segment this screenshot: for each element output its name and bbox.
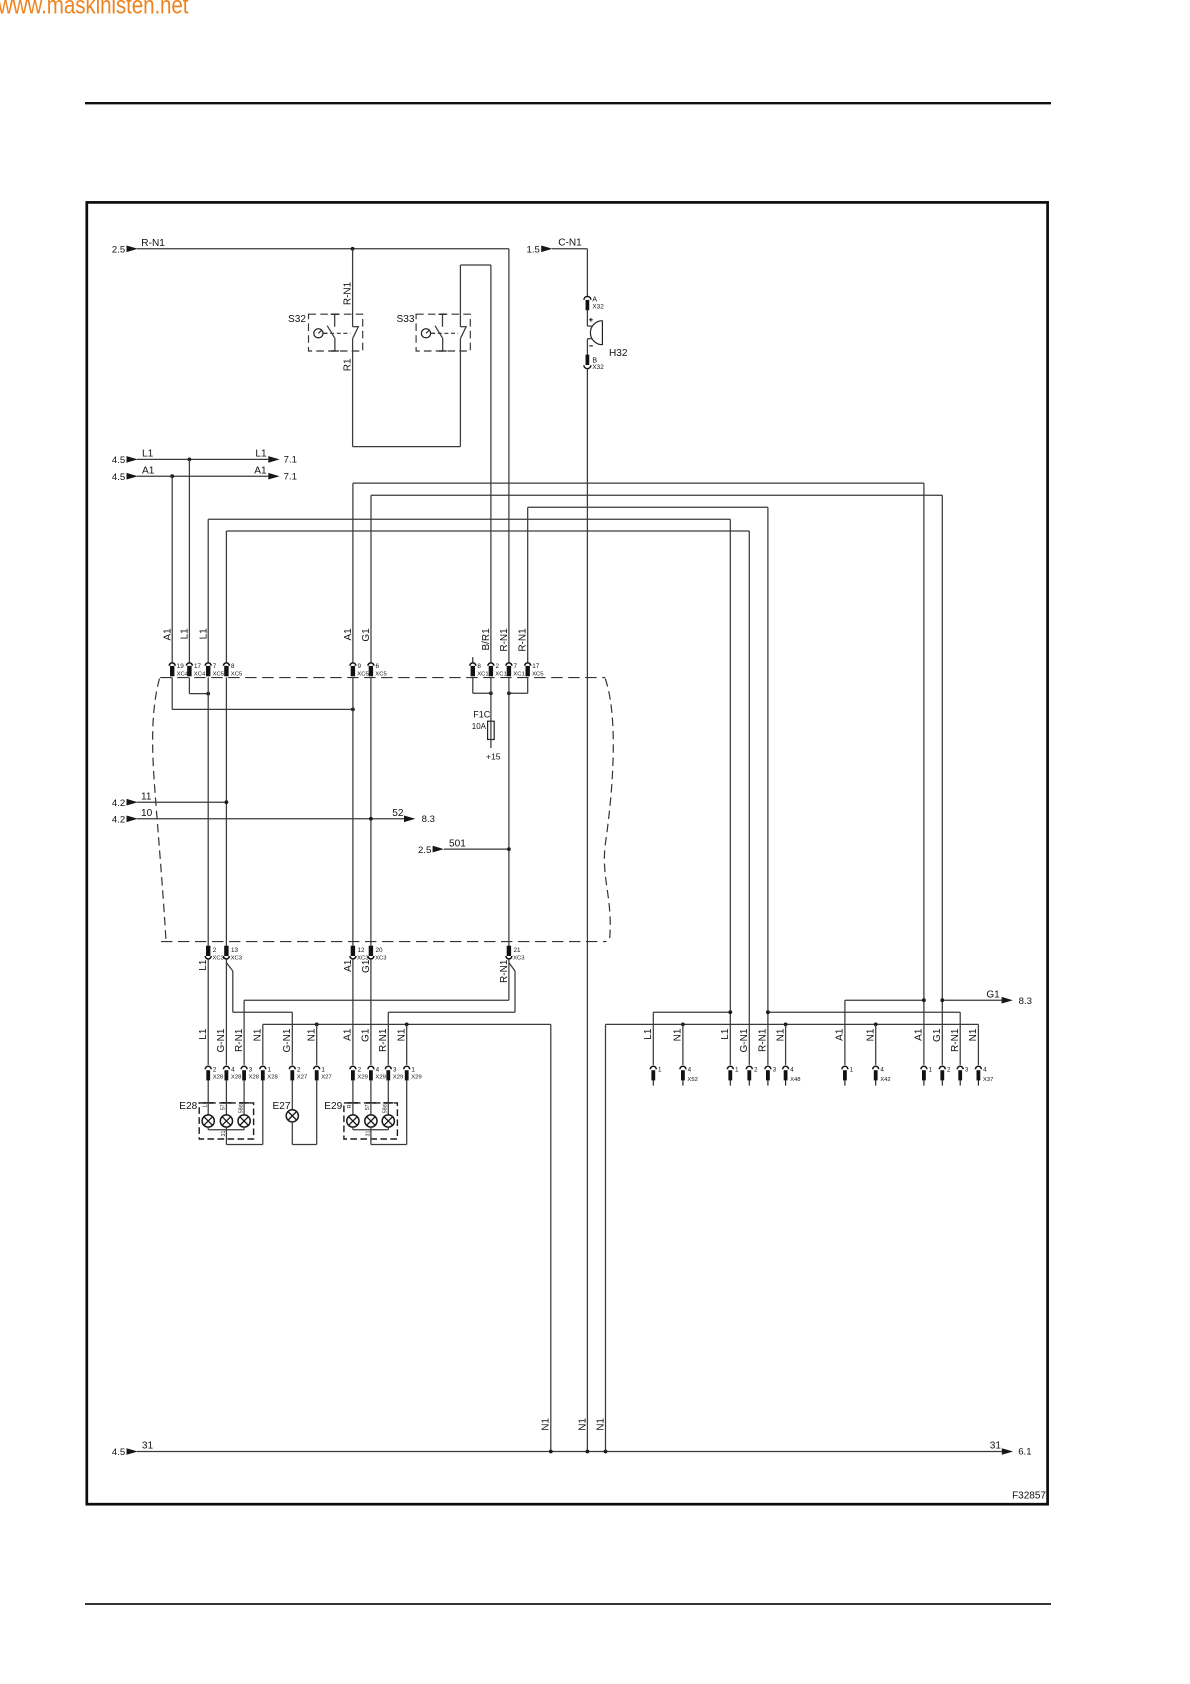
E29 lamp commons — [353, 1127, 388, 1130]
svg-text:N1: N1 — [968, 1028, 979, 1041]
central unit dashed top edge — [160, 677, 605, 679]
svg-text:XC5: XC5 — [357, 672, 369, 678]
connector pin A X32 — [584, 296, 604, 310]
svg-text:XC5: XC5 — [213, 672, 225, 678]
wire G-N1 bus horizontal — [226, 530, 749, 532]
svg-text:2: 2 — [358, 1066, 362, 1073]
svg-text:2.5: 2.5 — [418, 845, 431, 856]
svg-text:1: 1 — [321, 1066, 325, 1073]
wire wire 11 horizontal — [137, 801, 226, 803]
wire E29 return loop — [371, 1144, 407, 1146]
wire G1 through wire — [370, 677, 372, 945]
lamp E28 middle — [220, 1115, 232, 1127]
svg-text:4.5: 4.5 — [112, 472, 125, 483]
svg-text:X29: X29 — [375, 1075, 385, 1081]
feed 2.5 R-N1 labels and arrow — [112, 238, 165, 255]
header rule — [85, 102, 1051, 104]
XC3-21 jog diagonal — [509, 963, 515, 971]
svg-text:A1: A1 — [914, 1028, 925, 1041]
wire E29 N1 riser — [406, 1080, 408, 1144]
svg-text:G1: G1 — [986, 989, 1000, 1000]
E28 terminal labels — [202, 1104, 244, 1113]
svg-text:1: 1 — [929, 1066, 933, 1073]
wire A1 bus right drop to X37-1 — [923, 483, 925, 1065]
svg-text:X28: X28 — [267, 1075, 278, 1081]
svg-text:58d: 58d — [383, 1104, 389, 1113]
connector pin XC4 pin 19 — [169, 663, 189, 678]
svg-text:www.maskinisten.net: www.maskinisten.net — [0, 0, 189, 19]
connector pin XC4 pin 17 — [186, 663, 206, 678]
feed 2.5 wire 501 — [418, 838, 466, 856]
connector pin XC1 pin 2 — [488, 663, 507, 678]
horn H32 body — [587, 318, 628, 359]
wire XC1-8 to B/R1 link — [473, 692, 491, 694]
svg-text:X29: X29 — [411, 1075, 421, 1081]
connector pin XC5 pin 7 — [205, 663, 225, 678]
svg-text:31: 31 — [990, 1441, 1002, 1452]
connector pin X48 pin 4 — [783, 1066, 802, 1085]
svg-text:21: 21 — [514, 947, 522, 954]
svg-text:3: 3 — [249, 1066, 253, 1073]
wire L1 feed horizontal — [137, 458, 268, 460]
wire G-N1 bus right drop to X48-2 — [748, 531, 750, 1065]
connector pin X27 pin 1 — [314, 1066, 332, 1080]
wire E29 common drop — [370, 1130, 372, 1145]
junction N1 tee X48-4 — [784, 1023, 788, 1027]
svg-text:S33: S33 — [397, 314, 415, 325]
svg-text:3: 3 — [393, 1066, 397, 1073]
switch S33 — [397, 314, 471, 351]
svg-text:10A: 10A — [472, 722, 487, 731]
svg-text:7.1: 7.1 — [284, 455, 297, 466]
wire E29 wire 57 — [370, 1080, 372, 1115]
junction wire 501 junction — [507, 847, 511, 851]
S33 right pole contact — [460, 326, 466, 338]
svg-text:501: 501 — [449, 838, 466, 849]
junction L1 branch tee — [728, 1010, 732, 1014]
wire R-N1 feed horizontal — [137, 248, 509, 250]
connector pin X37 pin 2 — [939, 1066, 951, 1085]
svg-text:19: 19 — [177, 663, 185, 670]
svg-text:2.5: 2.5 — [112, 244, 125, 255]
wire E28 return loop — [226, 1144, 262, 1146]
connector pin X48 pin 2 — [746, 1066, 758, 1085]
wire N1 bus left — [263, 1023, 551, 1025]
footer rule — [85, 1603, 1051, 1605]
wire R-N1 branch horizontal right — [768, 1011, 960, 1013]
junction link on B/R1 wire — [489, 691, 493, 695]
svg-text:4: 4 — [688, 1066, 692, 1073]
svg-text:+15: +15 — [486, 752, 501, 762]
junction A1 branch tee — [922, 998, 926, 1002]
wire N1 drop to X28-1 — [262, 1024, 264, 1065]
svg-text:XC1: XC1 — [495, 672, 506, 678]
wire XC4-19 to A1 link — [172, 708, 353, 710]
svg-text:1: 1 — [268, 1066, 272, 1073]
connector pin XC3 pin 13 — [223, 946, 242, 962]
svg-text:X28: X28 — [249, 1075, 260, 1081]
wire R-N1 bus right drop to X48-3 — [767, 507, 769, 1065]
wire R-N1 drop to X29-3 — [387, 1012, 389, 1065]
connector pin XC1 pin 7 — [506, 663, 525, 678]
wire L1 branch horizontal — [653, 1011, 730, 1013]
wire E27 feed wire — [291, 1080, 293, 1109]
svg-text:XC1: XC1 — [477, 672, 488, 678]
wire N1 drop to X27-1 — [316, 1024, 318, 1065]
junction N1 tee X27-1 — [315, 1023, 319, 1027]
central unit dashed bottom edge — [161, 941, 607, 943]
wire G1 bus left drop to XC5-6 — [370, 495, 372, 662]
svg-text:31: 31 — [142, 1441, 154, 1452]
svg-text:G1: G1 — [361, 628, 372, 642]
svg-text:A1: A1 — [254, 465, 267, 476]
svg-text:7.1: 7.1 — [284, 471, 297, 482]
svg-text:7: 7 — [514, 663, 518, 670]
wire C-N1 feed horizontal — [552, 248, 587, 250]
wire A1 vertical to XC4-19 — [171, 476, 173, 662]
feed 4.5 L1 row — [112, 449, 297, 466]
wire ground bus 31 — [137, 1451, 1002, 1453]
svg-text:X28: X28 — [231, 1075, 242, 1081]
svg-text:G1: G1 — [361, 959, 372, 973]
svg-text:L1: L1 — [255, 449, 267, 460]
feed 4.2 wire 11 — [112, 791, 152, 808]
connector pin XC1 pin 8 — [470, 663, 489, 678]
wire B/R1 vertical to XC1-2 — [490, 265, 492, 662]
wire B/R1 to fuse — [490, 677, 492, 721]
lamp unit E29 box — [324, 1101, 397, 1139]
svg-text:G-N1: G-N1 — [216, 1028, 227, 1052]
svg-text:R-N1: R-N1 — [499, 959, 510, 983]
svg-text:L1: L1 — [180, 628, 191, 640]
svg-text:R-N1: R-N1 — [342, 281, 353, 305]
svg-text:L1: L1 — [198, 959, 209, 971]
wire H32 ground wire long — [586, 369, 588, 1452]
svg-text:A1: A1 — [343, 1028, 354, 1041]
svg-text:6.1: 6.1 — [1018, 1447, 1031, 1458]
svg-text:E28: E28 — [179, 1101, 197, 1112]
wire E28 common drop — [225, 1130, 227, 1145]
connector pin X52 pin 4 — [680, 1066, 698, 1085]
svg-text:N1: N1 — [253, 1028, 264, 1041]
svg-text:X28: X28 — [213, 1075, 224, 1081]
junction 31 junction left N1 — [549, 1450, 553, 1454]
svg-text:R-N1: R-N1 — [758, 1028, 769, 1052]
svg-text:E27: E27 — [273, 1101, 291, 1112]
connector pin X29 pin 1 — [404, 1066, 422, 1080]
svg-text:A1: A1 — [343, 628, 354, 641]
svg-text:8.3: 8.3 — [1019, 996, 1032, 1007]
connector pin XC3 pin 21 — [506, 946, 525, 962]
wire G-N1 drop to X28-4 — [225, 959, 227, 1065]
switch S32 — [288, 314, 363, 351]
wire N1 drop to X37-4 — [977, 1024, 979, 1065]
connector pin XC5 pin 17 — [525, 663, 545, 678]
svg-text:N1: N1 — [306, 1028, 317, 1041]
junction link on L1 wire — [206, 692, 210, 696]
wire N1 bus right — [606, 1023, 979, 1025]
feed 4.5 ground bus 31 — [112, 1441, 154, 1459]
connector pin XC5 pin 8 — [223, 663, 243, 678]
wire XC4-17 to L1 link — [189, 693, 208, 695]
svg-text:G-N1: G-N1 — [282, 1028, 293, 1052]
wire R-N1 bus horizontal — [528, 506, 768, 508]
svg-text:E29: E29 — [324, 1101, 342, 1112]
lamp unit E28 box — [179, 1101, 253, 1139]
wire A1 through wire — [352, 677, 354, 945]
connector pin X28 pin 3 — [241, 1066, 260, 1080]
connector pin X29 pin 2 — [350, 1066, 368, 1080]
wire E28 wire 58d — [243, 1080, 245, 1115]
wire XC1-8 internal drop — [472, 677, 474, 693]
junction N1 tee X29-1 — [405, 1023, 409, 1027]
svg-text:17: 17 — [194, 663, 202, 670]
svg-text:R-N1: R-N1 — [499, 628, 510, 652]
svg-text:1: 1 — [411, 1066, 415, 1073]
svg-text:13: 13 — [231, 947, 239, 954]
svg-text:R-N1: R-N1 — [518, 628, 529, 652]
svg-text:X27: X27 — [297, 1075, 307, 1081]
wire R-N1 bus left drop to XC5-17 — [527, 507, 529, 662]
wire G-N1 branch vertical — [232, 971, 234, 1012]
wire G1 bus horizontal — [371, 494, 942, 496]
svg-text:N1: N1 — [577, 1418, 588, 1431]
svg-text:4: 4 — [983, 1066, 987, 1073]
svg-text:A1: A1 — [162, 628, 173, 641]
svg-text:4.5: 4.5 — [112, 455, 125, 466]
svg-text:2: 2 — [297, 1066, 301, 1073]
wire H32 minus wire — [586, 339, 588, 355]
wire N1 right vertical to ground bus — [605, 1024, 607, 1451]
connector pin XC3 pin 20 — [368, 946, 387, 962]
wire R-N1 drop to X37-3 — [959, 1012, 961, 1065]
connector pin X29 pin 4 — [368, 1066, 386, 1080]
lamp E29 right — [382, 1115, 394, 1127]
wire E28 wire 57 — [225, 1080, 227, 1115]
svg-text:X32: X32 — [592, 364, 604, 371]
svg-text:58d: 58d — [238, 1104, 244, 1113]
wire R-N1 vertical to XC1-7 — [508, 249, 510, 663]
svg-text:X48: X48 — [790, 1077, 801, 1083]
wire S32 lower wire — [352, 338, 354, 446]
svg-text:2: 2 — [213, 1066, 217, 1073]
svg-text:2: 2 — [947, 1066, 951, 1073]
feed 4.5 A1 row — [112, 465, 297, 482]
svg-text:B/R1: B/R1 — [481, 628, 492, 651]
lamp E29 middle — [365, 1115, 377, 1127]
svg-text:L1: L1 — [198, 1028, 209, 1040]
connector pin X48 pin 3 — [765, 1066, 777, 1085]
wire G1 exit horizontal — [942, 999, 1001, 1001]
connector pin X37 pin 3 — [957, 1066, 969, 1085]
svg-text:X27: X27 — [321, 1075, 331, 1081]
wire A1 bus horizontal — [353, 482, 924, 484]
svg-text:17: 17 — [532, 663, 540, 670]
svg-text:N1: N1 — [673, 1028, 684, 1041]
junction N1 tee X42-4 — [874, 1023, 878, 1027]
svg-text:G1: G1 — [932, 1028, 943, 1042]
svg-text:1: 1 — [850, 1066, 854, 1073]
connector pin X37 pin 1 — [921, 1066, 933, 1085]
wire G-N1 branch horizontal — [233, 1011, 292, 1013]
junction G1 branch tee — [940, 998, 944, 1002]
svg-text:N1: N1 — [541, 1418, 552, 1431]
svg-text:XC3: XC3 — [375, 956, 387, 962]
wire R-N1 second branch vertical — [514, 971, 516, 1012]
wire A1 drop to X29-2 — [352, 959, 354, 1065]
svg-text:N1: N1 — [865, 1028, 876, 1041]
svg-text:XC5: XC5 — [532, 672, 544, 678]
wire S32-S33 loop bottom — [353, 446, 461, 448]
svg-text:X52: X52 — [687, 1077, 697, 1083]
wire E27 N1 riser — [316, 1080, 318, 1144]
connector pin XC3 pin 12 — [350, 946, 369, 962]
svg-text:10: 10 — [141, 808, 153, 819]
wire L1 vertical to XC4-17 — [188, 459, 190, 662]
svg-text:G1: G1 — [361, 1028, 372, 1042]
junction R-N1/S32 — [351, 247, 355, 251]
svg-text:8.3: 8.3 — [422, 814, 435, 825]
wire G1 drop to X29-4 — [370, 959, 372, 1065]
svg-text:A1: A1 — [343, 959, 354, 972]
lamp E28 left — [202, 1115, 214, 1127]
junction 31 junction right N1 — [604, 1450, 608, 1454]
wire E28 N1 riser — [262, 1080, 264, 1144]
watermark www.maskinisten.net — [0, 0, 189, 19]
svg-text:R-N1: R-N1 — [378, 1028, 389, 1052]
wire R-N1 branch to X29 — [388, 1011, 515, 1013]
wire wire 501 horizontal — [444, 848, 509, 850]
junction 31 junction horn N1 — [586, 1450, 590, 1454]
wire A1 bus left drop to XC5-9 — [352, 483, 354, 662]
junction wire 11 junction — [225, 800, 229, 804]
svg-text:N1: N1 — [775, 1028, 786, 1041]
wire L1 drop to X28-2 — [207, 959, 209, 1065]
svg-text:R-N1: R-N1 — [950, 1028, 961, 1052]
connector pin X28 pin 1 — [260, 1066, 279, 1080]
svg-text:X37: X37 — [983, 1077, 993, 1083]
wire G-N1 drop to X27-2 — [291, 1012, 293, 1065]
wire E27 return drop — [291, 1122, 293, 1145]
svg-text:4: 4 — [376, 1066, 380, 1073]
wire G-N1 bus left drop to XC5-8 — [225, 531, 227, 662]
wire XC4-17 internal drop — [188, 677, 190, 693]
wire R-N1 drop from XC3-21 — [508, 959, 510, 1000]
connector pin XC5 pin 9 — [350, 663, 370, 678]
svg-text:2: 2 — [496, 663, 500, 670]
svg-text:11: 11 — [141, 791, 152, 802]
svg-text:52: 52 — [392, 808, 404, 819]
central unit dashed left edge — [153, 679, 166, 942]
wire A1 drop to X42-1 — [844, 1000, 846, 1065]
svg-text:4.2: 4.2 — [112, 814, 125, 825]
svg-text:XC3: XC3 — [231, 956, 243, 962]
svg-text:4: 4 — [880, 1066, 884, 1073]
wire L1 drop to X52-1 — [652, 1012, 654, 1065]
wire R-N1 drop to X28-3 — [243, 1000, 245, 1065]
wire XC5-17 internal drop — [527, 677, 529, 693]
wire N1 drop to X48-4 — [785, 1024, 787, 1065]
connector pin X28 pin 2 — [205, 1066, 224, 1080]
junction R-N1 branch tee — [766, 1010, 770, 1014]
junction link on A1 wire — [351, 708, 355, 712]
connector pin B X32 — [584, 355, 604, 372]
wire N1 drop to X52-4 — [682, 1024, 684, 1065]
svg-text:G-N1: G-N1 — [739, 1028, 750, 1052]
svg-text:12: 12 — [358, 947, 366, 954]
diagram frame border — [87, 202, 1048, 1504]
wire E27 return loop — [292, 1144, 316, 1146]
svg-text:F1C: F1C — [473, 710, 491, 720]
E29 terminal labels — [347, 1104, 388, 1113]
svg-text:A1: A1 — [142, 465, 155, 476]
junction N1 tee X52-4 — [681, 1023, 685, 1027]
wire L1 bus right drop to X48-1 — [729, 519, 731, 1065]
feed 4.2 wire 10 / 52 to 8.3 — [112, 808, 435, 825]
wire L1 bus horizontal — [208, 518, 730, 520]
svg-text:4.2: 4.2 — [112, 798, 125, 809]
wire E29 wire 58d — [387, 1080, 389, 1115]
connector pin X29 pin 3 — [385, 1066, 403, 1080]
wire A1 feed horizontal — [137, 475, 268, 477]
svg-text:X29: X29 — [357, 1075, 367, 1081]
connector pin X37 pin 4 — [975, 1066, 993, 1085]
svg-text:1.5: 1.5 — [527, 245, 540, 256]
wire C-N1 vertical to H32 — [586, 249, 588, 297]
svg-text:X42: X42 — [880, 1077, 890, 1083]
wire E28 wire L — [207, 1080, 209, 1115]
connector pin X52 pin 1 — [650, 1066, 662, 1085]
wire R-N1 bus to X28 — [244, 999, 509, 1001]
svg-text:R-N1: R-N1 — [234, 1028, 245, 1052]
junction L1 feed tee — [188, 458, 192, 462]
wire XC4-19 internal drop — [171, 677, 173, 709]
svg-text:XC3: XC3 — [513, 956, 525, 962]
wire S33 loop top horizontal — [460, 264, 491, 266]
svg-text:8: 8 — [477, 663, 481, 670]
svg-text:R1: R1 — [342, 358, 353, 371]
connector pin X28 pin 4 — [223, 1066, 242, 1080]
svg-text:N1: N1 — [595, 1418, 606, 1431]
connector pin X27 pin 2 — [289, 1066, 307, 1080]
svg-text:S32: S32 — [288, 314, 306, 325]
wire L1 through wire — [207, 677, 209, 945]
svg-text:H32: H32 — [609, 348, 628, 359]
G1 exit arrow to 8.3 — [986, 989, 1032, 1006]
E28 lamp commons — [208, 1127, 244, 1130]
svg-text:1: 1 — [735, 1066, 739, 1073]
XC3-13 jog diagonal — [226, 963, 232, 971]
svg-text:L1: L1 — [643, 1028, 654, 1040]
svg-text:7: 7 — [213, 663, 217, 670]
feed 1.5 C-N1 labels and arrow — [527, 238, 583, 256]
svg-text:L1: L1 — [198, 628, 209, 640]
svg-text:1: 1 — [658, 1066, 662, 1073]
wire S33 lower wire — [459, 338, 461, 446]
svg-text:20: 20 — [376, 947, 384, 954]
lamp E29 left — [347, 1115, 359, 1127]
svg-text:L1: L1 — [720, 1028, 731, 1040]
svg-text:3: 3 — [773, 1066, 777, 1073]
wire N1 drop to X29-1 — [406, 1024, 408, 1065]
wire R-N1 through wire — [508, 677, 510, 945]
wire wire XC5-8 to XC3-13 — [225, 677, 227, 945]
svg-text:XC5: XC5 — [375, 672, 387, 678]
wire L1 bus left drop to XC5-7 — [207, 519, 209, 662]
central unit dashed right edge — [604, 679, 613, 942]
wire H32 plus wire — [586, 310, 588, 326]
svg-text:6: 6 — [376, 663, 380, 670]
